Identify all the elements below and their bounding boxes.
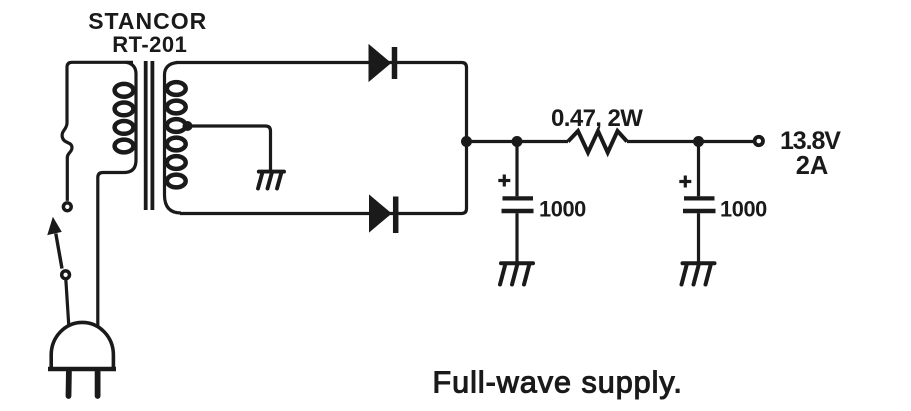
node junction dot (diode column) [461,136,472,147]
plug P1 base [48,367,116,372]
svg-text:0.47, 2W: 0.47, 2W [551,105,643,132]
node junction dot (C2 tap) [693,136,704,147]
ground chassis (C2) [682,263,715,284]
label + (C2) [679,176,691,188]
label + (C1) [498,175,510,187]
switch S1 arrowhead [48,218,61,235]
ground chassis (C1) [500,263,533,284]
svg-text:1000: 1000 [539,197,586,222]
switch S1 lower terminal [62,271,70,279]
wire primary bottom return to plug [98,173,124,328]
wire center tap to ground [188,126,271,170]
wire primary top + left drop with squiggle to switch [62,62,133,201]
svg-text:13.8V: 13.8V [780,127,841,155]
capacitor C1 [502,142,534,262]
capacitor C2 [683,142,716,262]
svg-text:Full-wave supply.: Full-wave supply. [433,366,683,400]
svg-text:RT-201: RT-201 [112,32,187,57]
diode D1 [369,45,395,81]
resistor R1 [568,131,627,153]
transformer T1 secondary coil [165,63,182,214]
plug P1 body [51,322,113,367]
switch S1 lever arm [56,234,62,269]
svg-text:2A: 2A [796,152,829,180]
output terminal [755,137,763,145]
wire output rail [467,140,755,143]
transformer T1 core [144,61,148,210]
wire switch to plug [66,279,69,326]
diode D2 [370,196,396,234]
switch S1 upper terminal [63,203,71,211]
svg-text:1000: 1000 [720,197,767,222]
svg-text:STANCOR: STANCOR [88,8,207,34]
wire secondary top to diode D1 and right column down [176,63,467,214]
ground chassis (center tap) [258,172,284,189]
plug P1 prongs [69,372,98,396]
node center tap dot [183,121,193,131]
node junction dot (C1 tap) [512,136,523,147]
transformer T1 primary coil [124,62,136,172]
